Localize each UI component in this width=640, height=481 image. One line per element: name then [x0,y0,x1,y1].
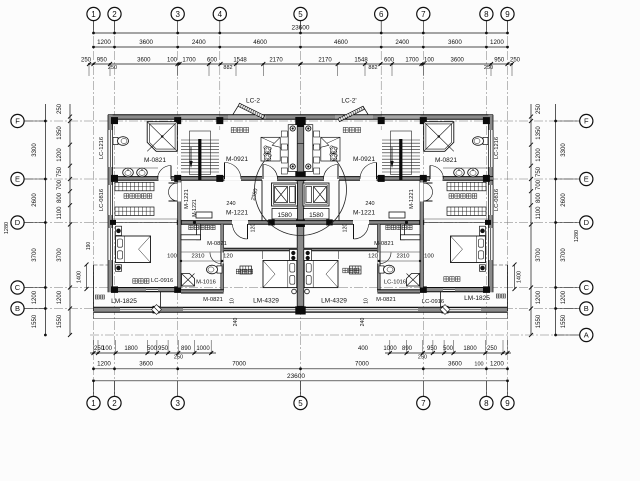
svg-text:250: 250 [484,65,493,71]
bed right outer bedroom [451,236,486,263]
door M-1221 left bedroom [247,224,249,239]
svg-text:1000: 1000 [196,346,210,352]
svg-text:250: 250 [418,355,427,361]
label walk-in closet left [124,194,152,199]
toilet right suite bath [379,266,384,273]
label master bedroom left-center [236,269,252,274]
svg-text:190: 190 [86,242,92,251]
label balcony left [95,295,104,299]
svg-text:1: 1 [91,399,96,408]
svg-text:240: 240 [365,201,374,207]
window LC-2 opening [228,115,266,119]
svg-text:E: E [584,175,589,184]
nightstand mirror [480,265,486,272]
svg-text:10: 10 [364,298,370,304]
svg-text:3: 3 [175,399,180,408]
central party wall [297,119,304,308]
svg-text:5: 5 [298,399,303,408]
label master bedroom left [133,279,149,284]
svg-text:250: 250 [487,346,498,352]
svg-text:LM-1825: LM-1825 [111,298,137,305]
D interior wall (center portion) [178,221,424,225]
svg-text:1280: 1280 [4,222,10,234]
fixture boxes center [290,250,298,262]
svg-text:2400: 2400 [395,39,409,46]
svg-text:7000: 7000 [355,361,369,368]
svg-text:M-1221: M-1221 [409,189,415,209]
door M-0821 left bath [170,166,172,180]
svg-text:1200: 1200 [536,148,542,162]
svg-text:950: 950 [427,346,438,352]
closet floor edge right [423,218,488,220]
svg-text:3700: 3700 [57,248,63,262]
bottom dimension lines [90,352,216,354]
window LM-4329 right [304,308,418,312]
svg-text:D: D [584,218,590,227]
svg-text:800: 800 [57,192,63,203]
svg-text:250: 250 [174,355,183,361]
entry hall walls [261,180,263,220]
top grid bubbles 1-9 [93,21,95,33]
svg-text:M-0821: M-0821 [207,241,227,247]
elevator shaft left [272,183,298,206]
svg-text:10: 10 [230,298,236,304]
window LM-1825 left [120,308,153,312]
svg-text:7000: 7000 [232,361,246,368]
svg-text:LM-1825: LM-1825 [464,295,490,302]
svg-text:1000: 1000 [383,346,397,352]
svg-text:A: A [584,331,589,340]
bottom C wall right portion [421,288,489,292]
svg-text:23600: 23600 [287,373,305,380]
window LM-1825 right [448,308,481,312]
bay sash LC-2' [338,106,365,121]
svg-text:240: 240 [226,201,235,207]
balcony depth dim 1400 [86,265,88,290]
svg-text:LC-1216: LC-1216 [494,137,500,159]
svg-text:100: 100 [424,254,434,260]
bed left center bedroom [263,261,297,288]
svg-text:LC-2: LC-2 [246,98,260,105]
svg-text:LC-0916: LC-0916 [151,278,173,284]
suite bath dim line left [181,260,224,262]
E interior wall [113,177,493,181]
svg-text:1200: 1200 [32,290,38,304]
svg-text:120: 120 [343,224,349,233]
svg-text:250: 250 [536,103,542,114]
left outer wall [108,115,113,292]
svg-text:8: 8 [484,10,489,19]
svg-text:D: D [15,218,21,227]
svg-text:1350: 1350 [57,126,63,140]
label walk-in closet left center [189,225,215,229]
svg-text:M-0921: M-0921 [353,156,375,163]
double door M-1221 right closet [424,183,433,192]
svg-text:100: 100 [167,58,178,64]
svg-text:M-0821: M-0821 [435,157,457,164]
svg-text:1: 1 [91,10,96,19]
svg-text:M-0821: M-0821 [374,241,394,247]
svg-text:2: 2 [112,399,117,408]
bedroom niche lines [262,251,264,259]
door right unit entry [337,165,339,180]
wardrobes right walk-in closet [447,182,486,191]
svg-text:250: 250 [81,58,92,64]
svg-text:M-1221: M-1221 [184,189,190,209]
svg-text:600: 600 [207,58,218,64]
svg-text:1200: 1200 [490,39,504,46]
suite bath dim line right [377,260,420,262]
svg-text:3700: 3700 [536,248,542,262]
svg-text:1100: 1100 [57,206,63,220]
label walk-in closet right center [386,225,412,229]
svg-text:2170: 2170 [269,58,283,64]
hallway wall left unit [224,248,298,251]
svg-text:3: 3 [175,10,180,19]
1580 lobby boxes [272,209,298,220]
svg-text:2170: 2170 [318,58,332,64]
label master bedroom right-center [343,268,359,273]
svg-text:E: E [15,175,20,184]
label living room right [343,128,360,133]
basins left bathroom [123,168,134,177]
svg-text:LC-0916: LC-0916 [422,299,444,305]
bottom grid bubbles [93,381,95,397]
svg-text:1400: 1400 [517,271,523,283]
svg-text:1400: 1400 [77,271,83,283]
label walk-in closet right [449,194,477,199]
svg-text:120: 120 [251,224,257,233]
svg-text:500: 500 [443,346,454,352]
plant left 2 [264,153,272,161]
svg-text:1200: 1200 [490,361,504,368]
svg-text:950: 950 [158,346,169,352]
elevator shaft right [303,183,329,206]
svg-text:M-0921: M-0921 [226,156,248,163]
svg-text:1548: 1548 [233,58,247,64]
svg-text:M-1221: M-1221 [226,210,248,217]
window LC-1216 left [108,130,113,167]
svg-text:3600: 3600 [137,58,151,64]
basins right bathroom [454,168,465,177]
label living room left [231,128,248,133]
svg-text:LC-0816: LC-0816 [494,189,500,211]
svg-text:100: 100 [167,254,177,260]
svg-text:500: 500 [147,346,158,352]
bay sash LC-2 [238,103,265,118]
svg-text:700: 700 [57,179,63,190]
svg-text:2310: 2310 [397,254,410,260]
svg-text:M-0821: M-0821 [376,297,396,303]
svg-text:M-1221: M-1221 [192,199,198,217]
svg-text:2400: 2400 [192,39,206,46]
svg-text:1700: 1700 [182,58,196,64]
svg-text:890: 890 [181,346,192,352]
lower terrace line [94,318,508,320]
svg-text:7: 7 [421,399,426,408]
plant left [264,146,272,154]
svg-text:250: 250 [57,103,63,114]
counter left [113,167,158,169]
svg-text:100: 100 [474,362,483,368]
nightstand [116,226,122,235]
grid3 vertical wall [178,180,181,287]
door left unit entry [262,165,264,180]
svg-text:1200: 1200 [57,148,63,162]
svg-text:882: 882 [368,65,377,71]
svg-text:F: F [584,117,589,126]
svg-text:C: C [15,283,21,292]
svg-text:700: 700 [536,179,542,190]
svg-text:B: B [584,304,589,313]
svg-text:1700: 1700 [405,58,419,64]
svg-text:9: 9 [505,10,510,19]
svg-text:750: 750 [536,166,542,177]
window LC-2' opening [335,115,373,119]
svg-text:250: 250 [108,65,117,71]
toilet left bathroom [113,137,118,144]
window LC-0816 left [108,185,113,215]
svg-text:5: 5 [298,10,303,19]
staircase left unit [181,131,219,175]
svg-text:M-0821: M-0821 [203,297,223,303]
svg-text:4: 4 [218,10,223,19]
door M-0821 right hallway [379,253,381,264]
door M-0921 right living [376,163,378,180]
sofa left unit [261,137,280,161]
svg-text:600: 600 [384,58,395,64]
shower right bathroom [424,122,454,152]
dresser left center bedroom [240,266,252,274]
svg-text:882: 882 [223,65,232,71]
elevator car right with X [314,187,327,203]
left dimension lines [44,104,46,335]
window LM-4329 left [183,308,297,312]
svg-text:F: F [15,117,20,126]
double door M-1221 left closet [169,183,178,192]
svg-text:3600: 3600 [448,361,462,368]
svg-text:4600: 4600 [253,39,267,46]
central closet left unit [196,212,212,218]
grid axis lines [24,21,580,396]
nightstand [116,265,122,272]
elevator car left with X [275,187,288,203]
svg-text:B: B [15,304,20,313]
grid7 vertical wall [420,180,423,287]
svg-text:1200: 1200 [97,39,111,46]
svg-text:100: 100 [102,346,113,352]
suite bath bottom wall left [181,290,224,293]
dining table left unit [288,125,297,172]
svg-text:240: 240 [360,318,366,327]
svg-text:1550: 1550 [57,314,63,328]
window C-0916 left [146,288,158,291]
left bedroom window [108,228,113,260]
door M-0821 left hallway [220,253,222,264]
right outer wall [488,115,493,292]
left balcony outline [94,264,109,266]
closet floor edge left [113,218,178,220]
bottom B wall with LM-4329 / LM-1825 windows [94,307,508,312]
svg-text:1200: 1200 [97,361,111,368]
svg-text:120: 120 [223,254,233,260]
floor drain [152,305,162,315]
counter right [443,167,488,169]
toilet left suite bath [217,266,222,273]
svg-text:1200: 1200 [57,290,63,304]
svg-text:800: 800 [536,192,542,203]
door M-0921 left living [224,163,226,180]
svg-text:6: 6 [379,10,384,19]
svg-text:3300: 3300 [32,143,38,157]
svg-text:LC-0816: LC-0816 [99,189,105,211]
svg-text:1548: 1548 [354,58,368,64]
svg-text:1200: 1200 [561,290,567,304]
svg-text:240: 240 [233,318,239,327]
svg-text:3600: 3600 [139,361,153,368]
door M-0821 right bath [429,166,431,180]
window LC-0816 right [488,185,493,215]
dining table right unit [304,125,313,172]
hallway wall right unit [304,248,378,251]
svg-text:M-0821: M-0821 [144,157,166,164]
outer top wall [108,115,493,119]
svg-text:3700: 3700 [561,248,567,262]
bathroom partition left unit [221,224,224,292]
toilet right bathroom [483,137,488,144]
svg-text:4600: 4600 [334,39,348,46]
svg-text:750: 750 [57,166,63,177]
svg-text:3600: 3600 [448,39,462,46]
svg-text:7: 7 [421,10,426,19]
bathroom partition right unit [377,224,380,292]
svg-text:400: 400 [358,346,369,352]
floor drain [440,305,450,315]
suite bath bottom wall right [377,290,420,293]
label balcony right [496,294,505,298]
svg-text:9: 9 [505,399,510,408]
svg-text:3600: 3600 [451,58,465,64]
columns [111,117,118,124]
svg-text:8: 8 [484,399,489,408]
svg-text:M-1221: M-1221 [353,210,375,217]
svg-text:120: 120 [368,254,378,260]
bed right center bedroom [304,261,338,288]
wardrobes left walk-in closet [115,182,154,191]
svg-text:1550: 1550 [561,314,567,328]
nightstand mirror [480,226,486,235]
svg-text:1800: 1800 [463,346,477,352]
svg-text:3300: 3300 [561,143,567,157]
svg-text:LM-4329: LM-4329 [253,298,279,305]
window over left stair [181,115,220,119]
svg-text:1550: 1550 [32,314,38,328]
svg-text:1280: 1280 [574,230,580,242]
svg-text:2310: 2310 [192,254,205,260]
window LC-1216 right [488,130,493,167]
svg-text:3700: 3700 [32,248,38,262]
svg-text:890: 890 [402,346,413,352]
svg-text:1580: 1580 [277,212,292,219]
plant right [330,146,338,154]
svg-text:3600: 3600 [139,39,153,46]
top dimension lines [94,32,508,34]
door M-1221 right bedroom [353,224,355,239]
svg-text:1580: 1580 [309,212,324,219]
svg-text:2600: 2600 [561,193,567,207]
bottom C wall left portion with window C-0916 [112,288,180,292]
dresser right center bedroom [350,266,362,274]
svg-text:C: C [584,283,590,292]
label master bedroom right [444,277,460,282]
right bedroom window [488,228,493,260]
svg-text:100: 100 [424,58,435,64]
sofa right unit [321,137,340,161]
svg-text:LM-4329: LM-4329 [321,298,347,305]
left grid bubbles F-B [24,120,45,122]
staircase right unit [382,131,420,175]
svg-text:1550: 1550 [536,314,542,328]
svg-text:250: 250 [510,58,521,64]
svg-text:1200: 1200 [536,290,542,304]
bed left outer bedroom [116,236,151,263]
svg-text:LC-1216: LC-1216 [99,137,105,159]
shower left bathroom [147,122,177,152]
svg-text:LC-2': LC-2' [341,98,356,105]
shower right suite [407,274,420,287]
svg-text:950: 950 [97,58,108,64]
svg-text:M-1016: M-1016 [196,280,216,286]
svg-text:950: 950 [494,58,505,64]
right dimension lines [555,104,557,335]
svg-text:LC-1016: LC-1016 [384,280,406,286]
bath top line left [181,251,221,253]
shower left suite [182,274,195,287]
central closet right unit [389,212,405,218]
window C-0916 right [443,288,455,291]
large circular void [255,144,347,236]
svg-text:1800: 1800 [124,346,138,352]
svg-text:1100: 1100 [536,206,542,220]
svg-text:2600: 2600 [32,193,38,207]
right balcony outline [493,264,508,266]
right grid bubbles F-A [556,120,580,122]
plant right 2 [330,153,338,161]
svg-text:2: 2 [112,10,117,19]
window over right stair [382,115,421,119]
svg-text:1350: 1350 [536,126,542,140]
